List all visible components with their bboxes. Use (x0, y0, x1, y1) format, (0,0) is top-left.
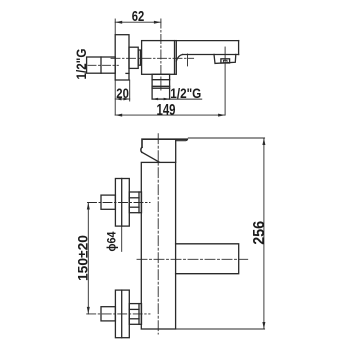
lower union stub (101, 307, 115, 321)
dim 256 line (263, 138, 265, 329)
lower union flange (115, 290, 129, 338)
lever right edge (175, 141, 177, 163)
dim 20 left extension (long, also 149) (114, 80, 116, 115)
spout arm front (176, 244, 239, 274)
body (side) (142, 41, 177, 75)
dim 149 line (115, 114, 225, 116)
dim 62 arrows (115, 21, 122, 24)
lever handle top (142, 139, 187, 147)
phi64 leader line (121, 226, 123, 251)
upper union stub (101, 195, 115, 209)
spout top edge (176, 40, 238, 42)
wall flange (side) (115, 35, 129, 80)
inlet pipe 1/2"G left (87, 57, 116, 73)
spout tip edge (238, 41, 240, 55)
aerator insert (221, 59, 230, 63)
ring (138, 50, 140, 65)
aerator inner tick (223, 60, 227, 63)
svg-text:150±20: 150±20 (75, 235, 91, 281)
fitting line 2 (152, 85, 170, 87)
svg-text:149: 149 (157, 102, 176, 119)
dim 149 arrows (115, 114, 122, 117)
upper flange mid line (121, 179, 123, 227)
dim 256 top extension (188, 137, 264, 139)
centerline cross tick (187, 54, 189, 66)
spout underside (183, 54, 239, 56)
lower nut facet lines (129, 308, 139, 310)
fitting line 3 (152, 87, 170, 89)
upper union centerline (88, 202, 151, 204)
svg-text:1/2"G: 1/2"G (73, 48, 89, 79)
lever tab underside (176, 139, 188, 140)
collar (129, 47, 138, 68)
svg-text:ϕ64: ϕ64 (107, 231, 119, 252)
valve axis centerline (160, 19, 162, 90)
fitting label underline (170, 98, 202, 100)
dim 256 bottom extension (176, 328, 265, 330)
upper union flange (115, 179, 129, 227)
flange step line (126, 72, 129, 74)
lever corner arc (141, 147, 142, 152)
main vertical centerline (157, 134, 159, 334)
svg-text:62: 62 (132, 8, 145, 25)
body right joint line (174, 41, 176, 75)
dim 150±20 line (87, 203, 89, 314)
fillet body-spout (176, 55, 182, 62)
fitting line 1 (152, 79, 170, 81)
dim 20 right extension (129, 80, 131, 101)
svg-text:20: 20 (116, 85, 129, 101)
arm centerline (137, 258, 248, 260)
dim 62 line (115, 21, 161, 23)
fitting thread arrows (152, 98, 158, 101)
svg-text:1/2"G: 1/2"G (170, 85, 201, 101)
upper nut facet edge (138, 192, 140, 213)
upper hex nut (129, 192, 141, 213)
body centerline horizontal (111, 57, 194, 59)
lower union centerline (87, 313, 150, 315)
lever diagonal (142, 152, 160, 162)
dim 62 extension left (114, 19, 116, 35)
dim 20 arrows (115, 98, 121, 101)
lower nut facet edge (138, 304, 140, 325)
faucet body front (141, 162, 175, 329)
dim 256 arrows (262, 138, 265, 145)
aerator centerline / 149 extension (224, 47, 226, 115)
pipe centerline (88, 64, 118, 66)
svg-text:256: 256 (251, 221, 268, 245)
pipe joint line (100, 57, 102, 73)
dim 150±20 arrows (87, 203, 90, 210)
lower hex nut (129, 304, 141, 325)
upper nut facet lines (129, 197, 139, 199)
bottom fitting 1/2"G (152, 74, 170, 99)
aerator (214, 55, 236, 64)
dim 20 line (115, 98, 130, 100)
lower flange mid line (121, 290, 123, 338)
